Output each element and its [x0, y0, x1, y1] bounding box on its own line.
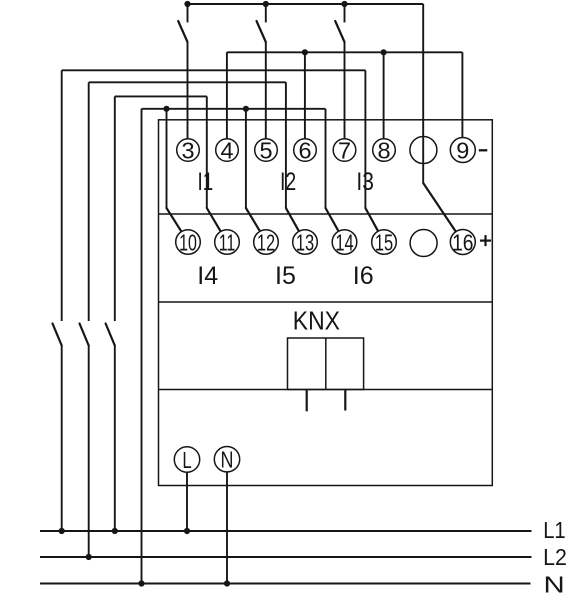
KNX pin 2: [344, 390, 346, 411]
terminal 10: [176, 230, 201, 257]
junction L on L1: [184, 528, 190, 534]
switch S1: [187, 4, 189, 22]
section divider KNX/bottom: [159, 389, 493, 391]
wire net A horizontal: [62, 69, 366, 71]
wire N to N rail: [226, 472, 228, 584]
svg-text:12: 12: [257, 231, 275, 256]
wire S2 to terminal 5: [265, 42, 267, 139]
wire bus2 to terminal 8: [383, 52, 385, 139]
svg-text:9: 9: [456, 138, 469, 164]
switch S4: [53, 324, 62, 346]
terminal 4: [216, 138, 239, 164]
wire net D to divider: [325, 109, 327, 208]
svg-text:5: 5: [259, 138, 272, 164]
terminal 16: [450, 230, 475, 257]
label minus: [479, 149, 488, 151]
svg-text:3: 3: [181, 138, 194, 164]
wire bus2 to terminal 4: [226, 52, 228, 139]
wire diagonal to terminal 13: [286, 208, 299, 231]
svg-text:N: N: [544, 571, 565, 598]
wire top bus: [188, 3, 424, 5]
svg-text:L2: L2: [543, 544, 566, 570]
section divider row1/row2: [159, 213, 493, 215]
svg-text:I3: I3: [356, 167, 374, 195]
junction bus2 at terminal 6: [302, 49, 308, 55]
terminal spare row1: [410, 137, 437, 164]
svg-text:N: N: [221, 448, 234, 474]
terminal N: [214, 447, 239, 474]
wire S6 to L1: [114, 346, 116, 532]
wire S3 to terminal 7: [344, 42, 346, 139]
terminal 3: [177, 138, 200, 164]
terminal 15: [372, 230, 397, 257]
svg-text:L1: L1: [543, 517, 565, 544]
terminal 6: [294, 138, 317, 164]
terminal 13: [293, 230, 318, 257]
svg-text:11: 11: [219, 231, 236, 257]
label plus: [480, 240, 491, 242]
svg-text:14: 14: [335, 231, 353, 256]
svg-text:15: 15: [375, 231, 393, 256]
wire net C to divider: [206, 96, 208, 208]
wire bus2 to terminal 6: [304, 52, 306, 139]
power rail L1: [40, 530, 532, 532]
wire drop through spare terminal: [422, 4, 424, 183]
svg-text:I1: I1: [198, 167, 214, 195]
wire net A left vertical: [61, 70, 63, 321]
junction S6 on L1: [112, 528, 118, 534]
terminal L: [174, 447, 199, 474]
power rail N: [40, 582, 531, 584]
switch S5: [80, 324, 89, 346]
switch S2: [265, 4, 267, 22]
power rail L2: [40, 556, 532, 558]
KNX connector block: [288, 338, 364, 390]
wire diagonal to terminal 10: [167, 208, 182, 232]
terminal spare row2: [410, 230, 437, 257]
junction top bus at S3: [341, 1, 347, 7]
wire net B to divider: [285, 82, 287, 208]
svg-text:16: 16: [452, 230, 473, 256]
terminal 8: [373, 138, 396, 164]
svg-text:6: 6: [298, 138, 311, 164]
section divider row2/KNX: [159, 301, 493, 303]
wire diagonal to terminal 15: [365, 208, 378, 231]
junction N on N rail: [224, 580, 230, 586]
junction S4 on L1: [59, 528, 65, 534]
terminal 14: [332, 230, 357, 257]
svg-text:7: 7: [338, 138, 351, 164]
wire bus2 to terminal 9: [461, 52, 463, 137]
wire diagonal to terminal 16: [423, 183, 456, 232]
junction top bus at S1: [184, 1, 190, 7]
terminal 11: [215, 230, 240, 257]
svg-text:I5: I5: [275, 262, 296, 290]
svg-text:I4: I4: [197, 262, 218, 290]
junction net D branch 12: [243, 106, 249, 112]
junction S5 on L2: [86, 554, 92, 560]
svg-text:KNX: KNX: [293, 307, 340, 335]
junction net D on N: [138, 580, 144, 586]
switch S3: [344, 4, 346, 22]
junction top bus at S2: [263, 1, 269, 7]
wire S4 to L1: [61, 346, 63, 532]
svg-text:L: L: [182, 448, 191, 473]
wire second bus: [227, 51, 463, 53]
svg-text:13: 13: [296, 231, 314, 256]
terminal 5: [255, 138, 278, 164]
wire S5 to L2: [88, 346, 90, 558]
KNX pin 1: [306, 390, 308, 412]
svg-text:8: 8: [377, 138, 390, 164]
svg-text:I2: I2: [280, 168, 296, 196]
wire net B left vertical: [88, 82, 90, 321]
wire net D left vertical to N: [141, 109, 143, 584]
wire net A to divider: [364, 70, 366, 208]
svg-text:I6: I6: [353, 262, 374, 290]
wire net C horizontal: [115, 95, 207, 97]
wire net C left vertical: [114, 96, 116, 321]
device outline: [159, 120, 493, 486]
wire through spare: [422, 137, 424, 164]
wire S1 to terminal 3: [187, 42, 189, 139]
wire branch to divider: [245, 109, 247, 208]
wire branch to divider: [166, 109, 168, 208]
terminal 9: [450, 138, 475, 164]
wire diagonal to terminal 11: [207, 208, 221, 231]
terminal 7: [333, 138, 356, 164]
svg-text:10: 10: [179, 231, 197, 257]
junction net D branch 10: [163, 106, 169, 112]
wire net B horizontal: [89, 81, 286, 83]
wire diagonal to terminal 14: [326, 208, 339, 231]
switch S6: [106, 324, 115, 346]
svg-text:4: 4: [220, 138, 233, 164]
junction bus2 at terminal 8: [381, 49, 387, 55]
terminal 12: [254, 230, 279, 257]
wire L to L1: [186, 472, 188, 531]
wire net D horizontal: [142, 108, 326, 110]
wire diagonal to terminal 12: [246, 208, 260, 231]
